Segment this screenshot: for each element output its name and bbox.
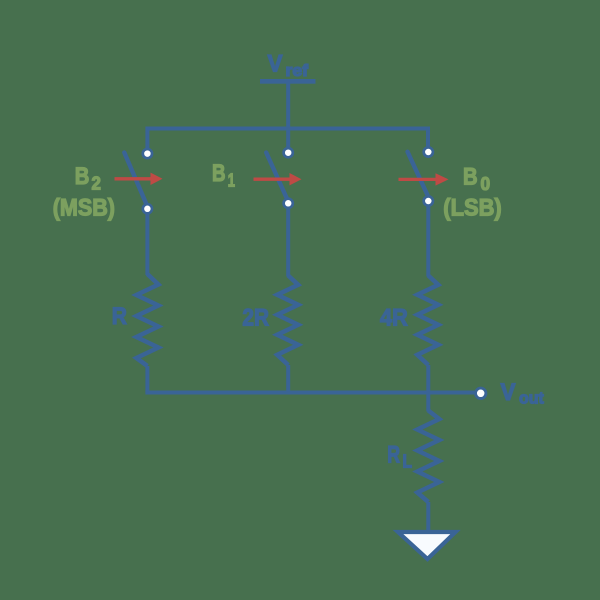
svg-text:R: R bbox=[387, 442, 400, 469]
switch B1 lever bbox=[266, 153, 288, 201]
label Vref bbox=[268, 51, 309, 81]
svg-text:(LSB): (LSB) bbox=[443, 195, 501, 222]
node switch B0 top terminal bbox=[424, 147, 433, 156]
ground bbox=[398, 532, 456, 559]
svg-text:V: V bbox=[268, 51, 283, 78]
svg-text:L: L bbox=[403, 452, 413, 472]
resistor RL bbox=[417, 411, 439, 503]
arrow for B1 bbox=[254, 173, 302, 185]
wire top bus bbox=[147, 129, 428, 154]
svg-text:B: B bbox=[212, 160, 226, 187]
node switch B2 top terminal bbox=[143, 149, 152, 158]
wire Vref to switch B1 top terminal bbox=[286, 83, 290, 153]
svg-text:B: B bbox=[463, 164, 478, 191]
svg-text:out: out bbox=[519, 390, 544, 408]
label B2 bbox=[75, 163, 101, 194]
svg-text:ref: ref bbox=[286, 62, 309, 80]
label B0 bbox=[463, 164, 490, 195]
node switch B1 top terminal bbox=[284, 148, 293, 157]
svg-text:(MSB): (MSB) bbox=[53, 195, 115, 222]
resistor R bbox=[136, 274, 158, 366]
wire resistor 4R to resistor RL bbox=[426, 365, 430, 412]
switch B2 lever bbox=[124, 153, 147, 207]
wire switch B2 bottom terminal to resistor R bbox=[145, 207, 149, 275]
arrow for B2 bbox=[115, 173, 163, 185]
node switch B1 bottom terminal bbox=[284, 199, 293, 208]
svg-text:4R: 4R bbox=[380, 305, 408, 332]
label Vout bbox=[501, 379, 545, 408]
svg-text:1: 1 bbox=[228, 170, 235, 190]
svg-text:B: B bbox=[75, 163, 90, 190]
wire switch B1 bottom terminal to resistor 2R bbox=[286, 202, 290, 277]
resistor 2R bbox=[277, 276, 298, 366]
arrow for B0 bbox=[399, 173, 449, 185]
svg-text:R: R bbox=[112, 303, 127, 330]
node switch B0 bottom terminal bbox=[424, 196, 433, 205]
Vref rail bar bbox=[260, 79, 316, 84]
svg-text:2: 2 bbox=[92, 174, 101, 194]
wire switch B0 bottom terminal to resistor 4R bbox=[426, 200, 430, 277]
label B1 bbox=[212, 160, 235, 191]
label RL bbox=[387, 442, 412, 472]
wire resistor 2R to bottom bus bbox=[286, 365, 290, 393]
wire resistor R to bottom bus bbox=[145, 366, 149, 393]
node Vout bbox=[476, 388, 486, 398]
svg-text:V: V bbox=[501, 379, 516, 406]
switch B0 lever bbox=[408, 152, 429, 198]
svg-text:2R: 2R bbox=[242, 305, 269, 332]
resistor 4R bbox=[417, 276, 438, 366]
wire bottom bus to Vout node bbox=[145, 391, 474, 395]
svg-text:0: 0 bbox=[481, 174, 491, 194]
node switch B2 bottom terminal bbox=[143, 204, 152, 213]
wire resistor RL to ground bbox=[426, 502, 430, 532]
